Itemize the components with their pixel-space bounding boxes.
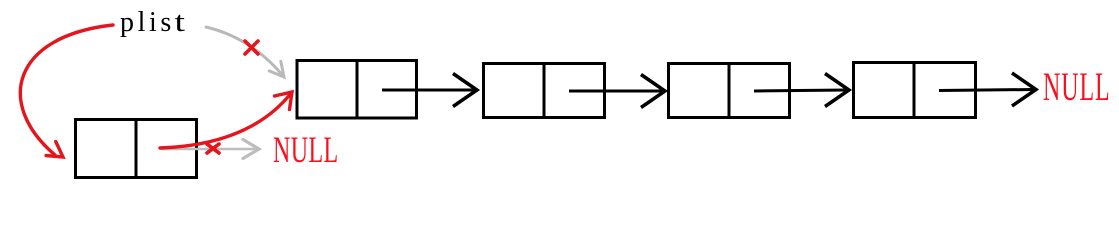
svg-text:t: t bbox=[175, 7, 186, 38]
node list box 2 bbox=[484, 64, 605, 118]
wire black arrow 2 to 3 bbox=[569, 75, 665, 108]
wire black arrow 4 to NULL bbox=[939, 73, 1036, 106]
red X mark on gray curve bbox=[245, 41, 258, 54]
svg-text:NULL: NULL bbox=[273, 129, 339, 170]
wire black arrow 3 to 4 bbox=[754, 74, 849, 107]
red X mark on gray arrow bbox=[207, 144, 219, 153]
svg-text:plis: plis bbox=[120, 7, 175, 38]
node list box 3 bbox=[669, 64, 790, 118]
wire gray curved arrow plist to first list node (broken) bbox=[206, 27, 284, 77]
label NULL (red, lower) bbox=[273, 129, 339, 170]
wire red curved arrow head node to first list node bbox=[160, 92, 292, 148]
svg-text:NULL: NULL bbox=[1043, 65, 1111, 110]
wire gray arrow to NULL (broken) bbox=[162, 140, 259, 159]
node list box 4 bbox=[854, 63, 976, 118]
wire black arrow 1 to 2 bbox=[382, 74, 477, 107]
wire red curved arrow plist to head node bbox=[20, 25, 113, 157]
node new head box bbox=[76, 120, 197, 178]
node list box 1 bbox=[297, 61, 417, 119]
label NULL (red, end of list) bbox=[1043, 65, 1111, 110]
